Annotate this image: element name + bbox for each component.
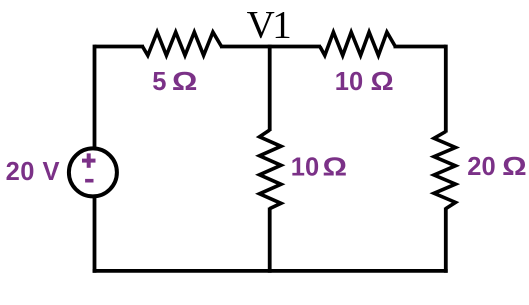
plus sign inside source	[82, 153, 96, 167]
wire middle vertical upper	[268, 45, 272, 131]
wire top-left horizontal segment	[95, 45, 145, 49]
wire bottom rail	[93, 269, 448, 273]
svg-text:10: 10	[335, 68, 363, 96]
minus sign inside source	[85, 179, 93, 183]
wire right vertical upper	[444, 45, 448, 133]
svg-text:Ω: Ω	[323, 153, 348, 181]
svg-text:20 V: 20 V	[6, 158, 60, 186]
wire left vertical lower	[93, 196, 97, 273]
svg-text:V1: V1	[247, 4, 291, 47]
svg-text:Ω: Ω	[172, 68, 198, 96]
svg-text:Ω: Ω	[502, 153, 527, 181]
voltage source 20V circle	[69, 148, 117, 196]
wire top-right segment	[394, 45, 446, 49]
svg-text:5: 5	[152, 68, 166, 96]
resistor R1 5 ohm horizontal zigzag	[143, 32, 222, 55]
wire middle vertical lower	[268, 208, 272, 273]
wire right vertical lower	[444, 208, 448, 273]
wire left vertical upper	[93, 45, 97, 150]
wire top-middle segment	[220, 45, 321, 49]
resistor R3 10 ohm vertical zigzag	[260, 130, 282, 209]
svg-text:20: 20	[467, 153, 495, 181]
svg-text:Ω: Ω	[371, 67, 394, 96]
resistor R2 10 ohm horizontal zigzag	[320, 32, 395, 55]
resistor R4 20 ohm vertical zigzag	[434, 132, 456, 209]
svg-text:10: 10	[291, 154, 319, 182]
